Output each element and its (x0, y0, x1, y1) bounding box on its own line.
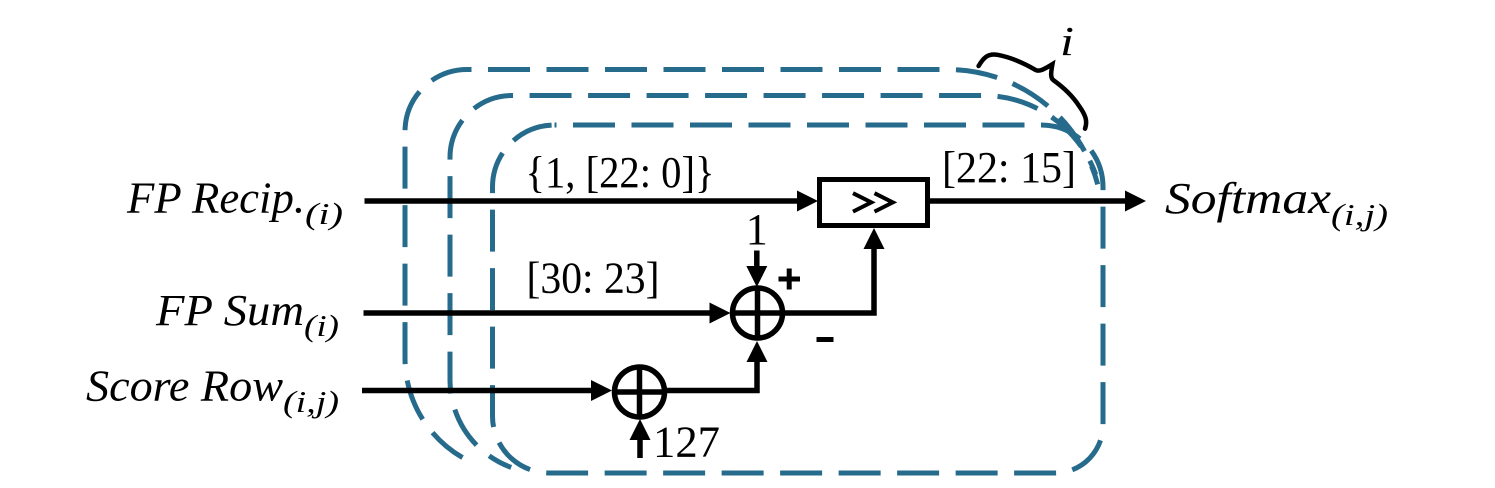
iteration loop boundary outer (dashed rounded frame) (405, 69, 1098, 457)
svg-text:FP Sum: FP Sum (155, 286, 304, 335)
wire shifter output to Softmax (929, 198, 1126, 204)
arrowhead into adder A1 bottom (747, 341, 768, 362)
arrowhead constant 127 up (630, 419, 651, 440)
svg-text:[30: 23]: [30: 23] (527, 254, 660, 303)
plus sign at adder A1 (779, 269, 801, 290)
wire Score Row input (362, 388, 592, 394)
arrowhead into shifter left (797, 191, 818, 212)
wire constant 1 into adder A1 top (754, 251, 760, 269)
shifter symbol >> (853, 193, 893, 211)
minus sign at adder A1 (817, 337, 834, 342)
svg-text:127: 127 (653, 418, 720, 467)
iteration loop boundary inner (dashed rounded rectangle) (493, 125, 1104, 473)
svg-text:Softmax: Softmax (1165, 174, 1332, 223)
svg-text:(i,j): (i,j) (283, 384, 339, 419)
iteration loop boundary middle (dashed rounded frame) (450, 96, 1096, 468)
arrowhead into shifter bottom (864, 228, 885, 249)
svg-text:(i): (i) (305, 196, 343, 231)
arrowhead into adder A2 left (591, 380, 612, 401)
svg-text:FP Recip.: FP Recip. (126, 174, 305, 223)
svg-text:(i,j): (i,j) (1331, 197, 1388, 232)
wire FP Sum input (364, 310, 711, 316)
wire FP Recip input (365, 198, 799, 204)
arrowhead into adder A1 left (710, 303, 731, 324)
svg-text:Score Row: Score Row (86, 362, 284, 411)
adder A2 (exponent bias add circle) (613, 365, 667, 419)
wire adder A1 output to shifter (right then up) (784, 248, 874, 313)
wire adder A2 output to adder A1 bottom (right then up) (666, 362, 757, 391)
svg-text:1: 1 (746, 205, 768, 254)
svg-text:i: i (1060, 18, 1074, 64)
brace for iteration count i (979, 32, 1105, 128)
wire constant 127 into adder A2 bottom (637, 438, 643, 458)
arrowhead constant 1 down (746, 266, 767, 287)
arrowhead output Softmax (1125, 191, 1146, 212)
svg-text:{1, [22: 0]}: {1, [22: 0]} (526, 148, 715, 197)
svg-text:(i): (i) (304, 308, 339, 343)
adder A1 (exponent subtract circle) (731, 286, 785, 340)
shifter box U1 (820, 180, 928, 226)
svg-text:[22: 15]: [22: 15] (942, 143, 1076, 192)
